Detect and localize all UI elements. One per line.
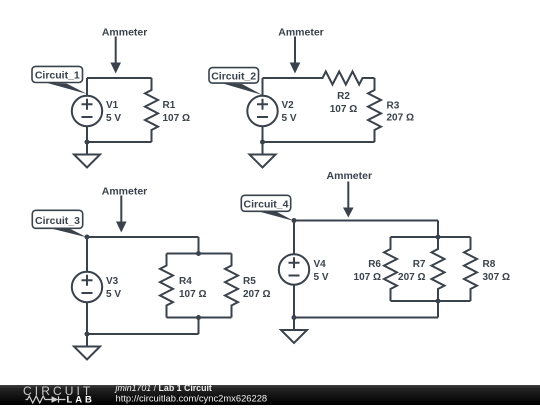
wire bottom rail circuit 3 bbox=[167, 317, 232, 319]
ground circuit 4 bbox=[281, 318, 307, 344]
footer bar bbox=[0, 383, 540, 406]
svg-text:Circuit_4: Circuit_4 bbox=[244, 198, 289, 210]
svg-text:107 Ω: 107 Ω bbox=[163, 113, 190, 124]
label R1 value bbox=[163, 100, 190, 124]
wire down to parallel rail circuit 3 bbox=[198, 237, 200, 254]
ammeter arrow circuit 3 bbox=[116, 196, 127, 233]
wire from V2 top to top wire bbox=[262, 78, 264, 96]
resistor R8 bbox=[464, 237, 477, 301]
wire top of circuit 2 bbox=[263, 77, 311, 79]
node flag Circuit_3 bbox=[32, 210, 87, 237]
wire bottom of circuit 1 bbox=[87, 141, 152, 143]
wire top of circuit 3 bbox=[87, 236, 199, 238]
svg-text:207 Ω: 207 Ω bbox=[398, 272, 425, 283]
label R4 value bbox=[179, 276, 206, 300]
wire bottom of circuit 3 bbox=[87, 333, 199, 335]
wire top rail circuit 3 bbox=[167, 253, 232, 255]
voltage source V3 bbox=[72, 272, 102, 302]
svg-text:5 V: 5 V bbox=[106, 113, 121, 124]
ground circuit 2 bbox=[250, 142, 276, 168]
svg-text:R3: R3 bbox=[387, 101, 400, 112]
wire down to parallel rail circuit 4 bbox=[437, 221, 439, 238]
node junction circuit 3 top rail bbox=[196, 251, 201, 256]
label R6 value bbox=[354, 259, 382, 283]
svg-text:R1: R1 bbox=[163, 100, 176, 111]
svg-text:Circuit_3: Circuit_3 bbox=[35, 215, 80, 227]
svg-text:LAB: LAB bbox=[67, 395, 95, 406]
svg-text:107 Ω: 107 Ω bbox=[354, 272, 381, 283]
label R2 value bbox=[330, 91, 357, 115]
wire down from bottom rail circuit 3 bbox=[198, 318, 200, 335]
resistor R4 bbox=[160, 254, 173, 318]
ammeter arrow circuit 1 bbox=[110, 37, 121, 74]
svg-text:R8: R8 bbox=[483, 259, 496, 270]
svg-text:Circuit_2: Circuit_2 bbox=[211, 70, 256, 82]
wire from V1 bottom to bottom wire bbox=[86, 126, 88, 142]
svg-text:R7: R7 bbox=[413, 259, 426, 270]
node junction circuit 2 bottom bbox=[260, 140, 265, 145]
ground circuit 3 bbox=[74, 334, 100, 360]
svg-text:5 V: 5 V bbox=[314, 272, 329, 283]
logo resistor-diode squiggle bbox=[26, 396, 66, 403]
svg-text:107 Ω: 107 Ω bbox=[330, 104, 357, 115]
voltage source V2 bbox=[247, 96, 277, 126]
svg-text:V4: V4 bbox=[314, 259, 327, 270]
svg-text:Circuit_1: Circuit_1 bbox=[35, 70, 80, 82]
wire from V4 top to top wire bbox=[293, 221, 295, 255]
wire top of circuit 4 bbox=[294, 220, 438, 222]
wire from V1 top to top wire bbox=[86, 78, 88, 96]
label V3 value bbox=[106, 276, 121, 300]
wire down from bottom rail circuit 4 bbox=[437, 301, 439, 318]
svg-text:V3: V3 bbox=[106, 276, 119, 287]
resistor R2 bbox=[311, 72, 375, 85]
wire top of circuit 1 bbox=[87, 77, 152, 79]
label V2 value bbox=[282, 100, 297, 124]
node junction circuit 3 top left bbox=[85, 235, 90, 240]
node junction circuit 3 bottom left bbox=[85, 332, 90, 337]
wire from V2 bottom to bottom wire bbox=[262, 126, 264, 142]
node junction circuit 3 bottom rail bbox=[196, 315, 201, 320]
wire bottom of circuit 2 bbox=[263, 141, 375, 143]
wire bottom of circuit 4 bbox=[294, 317, 438, 319]
ground circuit 1 bbox=[74, 142, 100, 168]
svg-text:Ammeter: Ammeter bbox=[278, 27, 324, 39]
resistor R3 bbox=[368, 78, 381, 142]
label R3 value bbox=[387, 101, 414, 124]
svg-text:307 Ω: 307 Ω bbox=[483, 272, 510, 283]
ammeter arrow circuit 4 bbox=[343, 182, 354, 218]
label R8 value bbox=[483, 259, 510, 283]
svg-text:207 Ω: 207 Ω bbox=[387, 113, 414, 124]
svg-text:V2: V2 bbox=[282, 100, 295, 111]
svg-text:107 Ω: 107 Ω bbox=[179, 289, 206, 300]
wire top rail circuit 4 bbox=[391, 236, 471, 238]
svg-text:5 V: 5 V bbox=[282, 113, 297, 124]
resistor R1 bbox=[145, 78, 158, 142]
node junction circuit 4 bottom rail bbox=[436, 299, 441, 304]
svg-text:http://circuitlab.com/cync2mx6: http://circuitlab.com/cync2mx626228 bbox=[116, 393, 268, 404]
svg-text:207 Ω: 207 Ω bbox=[243, 289, 270, 300]
wire bottom rail circuit 4 bbox=[391, 300, 471, 302]
resistor R7 bbox=[432, 237, 445, 301]
svg-text:Ammeter: Ammeter bbox=[102, 27, 148, 39]
node junction circuit 4 bottom left bbox=[292, 315, 297, 320]
svg-text:R2: R2 bbox=[337, 91, 350, 102]
resistor R6 bbox=[384, 237, 397, 301]
node junction circuit 1 bottom bbox=[85, 140, 90, 145]
svg-text:R5: R5 bbox=[243, 276, 256, 287]
label R7 value bbox=[398, 259, 426, 283]
label V1 value bbox=[106, 100, 121, 124]
voltage source V4 bbox=[279, 254, 309, 284]
wire from V3 bottom to bottom wire bbox=[86, 302, 88, 334]
svg-text:R4: R4 bbox=[179, 276, 192, 287]
resistor R5 bbox=[225, 254, 238, 318]
node flag Circuit_2 bbox=[209, 68, 263, 95]
node junction circuit 4 top rail bbox=[436, 235, 441, 240]
node junction circuit 4 top left bbox=[292, 218, 297, 223]
wire from V4 bottom to bottom wire bbox=[293, 285, 295, 318]
node flag Circuit_1 bbox=[32, 66, 87, 94]
node flag Circuit_4 bbox=[241, 195, 294, 221]
svg-text:5 V: 5 V bbox=[106, 289, 121, 300]
label R5 value bbox=[243, 276, 270, 300]
ammeter arrow circuit 2 bbox=[290, 37, 301, 74]
svg-text:jmin1701 / Lab 1 Circuit: jmin1701 / Lab 1 Circuit bbox=[115, 383, 212, 393]
svg-text:V1: V1 bbox=[106, 100, 119, 111]
label V4 value bbox=[314, 259, 329, 283]
svg-text:Ammeter: Ammeter bbox=[327, 170, 373, 182]
svg-text:Ammeter: Ammeter bbox=[102, 185, 148, 197]
svg-text:R6: R6 bbox=[368, 259, 381, 270]
wire from V3 top to top wire bbox=[86, 237, 88, 272]
voltage source V1 bbox=[72, 96, 102, 126]
